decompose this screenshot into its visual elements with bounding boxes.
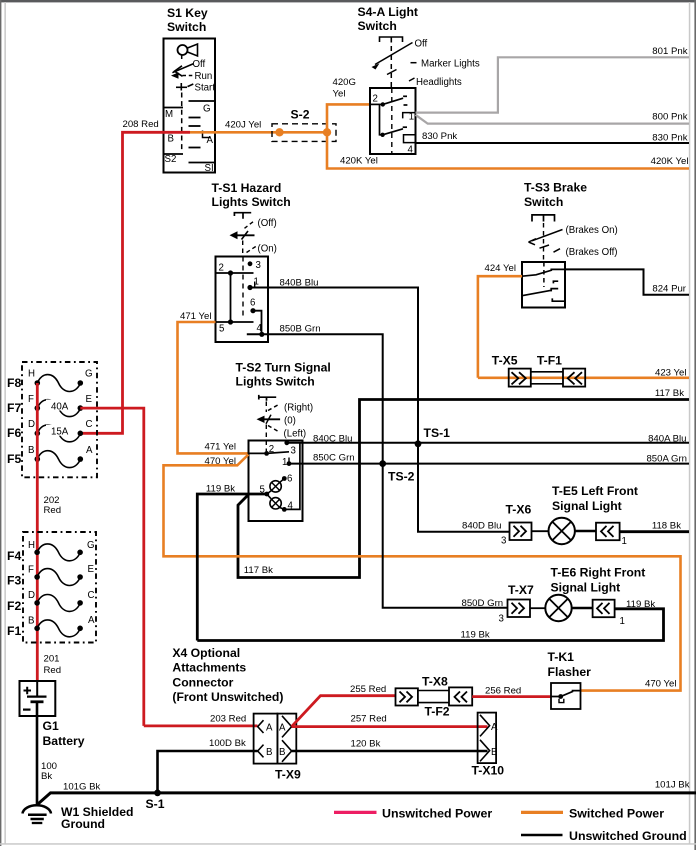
svg-text:471 Yel: 471 Yel — [180, 311, 211, 322]
ground W1 shielded ground — [23, 805, 134, 831]
svg-text:Off: Off — [193, 59, 206, 70]
svg-text:T-E6 Right Front: T-E6 Right Front — [551, 566, 646, 580]
switch S4-A light switch — [358, 5, 480, 156]
wire 423 Yel — [478, 376, 689, 379]
wire 424 Yel — [478, 276, 522, 378]
wire 801 Pnk — [416, 57, 690, 112]
wire 470 Yel — [164, 455, 681, 691]
svg-text:1: 1 — [409, 112, 414, 123]
svg-text:A: A — [207, 135, 214, 146]
svg-text:F: F — [28, 565, 34, 576]
svg-text:A: A — [88, 615, 95, 626]
connector T-E6 1 — [593, 600, 625, 627]
svg-text:Headlights: Headlights — [416, 77, 462, 88]
svg-text:3: 3 — [256, 260, 261, 271]
svg-text:T-X7: T-X7 — [508, 583, 534, 597]
svg-text:1: 1 — [622, 536, 627, 547]
fuse T-F2 — [418, 687, 472, 718]
svg-text:S4-A Light: S4-A Light — [358, 5, 418, 19]
svg-text:800 Pnk: 800 Pnk — [652, 112, 687, 123]
svg-text:420J Yel: 420J Yel — [225, 120, 261, 131]
svg-text:E: E — [86, 394, 93, 405]
svg-text:850A Grn: 850A Grn — [646, 454, 687, 465]
switch T-S2 turn signal lights switch — [236, 361, 331, 522]
svg-text:(On): (On) — [258, 244, 277, 255]
svg-text:Yel: Yel — [333, 89, 346, 100]
svg-text:255 Red: 255 Red — [350, 684, 386, 695]
svg-text:Flasher: Flasher — [548, 665, 592, 679]
wire 255 Red feed from F7 — [80, 408, 144, 726]
svg-text:471 Yel: 471 Yel — [205, 441, 236, 452]
svg-text:5: 5 — [219, 324, 224, 335]
svg-text:H: H — [28, 540, 35, 551]
svg-text:D: D — [28, 590, 35, 601]
svg-text:Start: Start — [195, 83, 216, 94]
svg-text:S-1: S-1 — [146, 797, 165, 811]
svg-text:SI: SI — [205, 163, 214, 174]
svg-text:D: D — [28, 419, 35, 430]
switch T-S3 brake switch — [522, 181, 618, 308]
svg-text:117 Bk: 117 Bk — [655, 388, 684, 399]
svg-text:F2: F2 — [7, 599, 21, 613]
connector T-X8 — [396, 675, 448, 706]
svg-text:G: G — [85, 369, 93, 380]
svg-text:Lights Switch: Lights Switch — [212, 195, 291, 209]
svg-text:T-S3 Brake: T-S3 Brake — [524, 181, 587, 195]
connector T-X10 — [472, 713, 505, 778]
svg-text:B: B — [28, 445, 34, 456]
svg-text:(Left): (Left) — [284, 429, 307, 440]
wire 800 Pnk — [416, 115, 690, 124]
svg-text:T-K1: T-K1 — [548, 650, 575, 664]
svg-text:F1: F1 — [7, 624, 21, 638]
svg-text:824 Pur: 824 Pur — [652, 284, 686, 295]
wire 120 Bk — [292, 750, 488, 753]
svg-text:T-X8: T-X8 — [422, 675, 448, 689]
svg-text:T-F2: T-F2 — [425, 705, 450, 719]
svg-text:1: 1 — [282, 457, 287, 468]
svg-text:100D Bk: 100D Bk — [209, 738, 246, 749]
svg-text:119 Bk: 119 Bk — [461, 630, 490, 641]
svg-text:840B Blu: 840B Blu — [280, 278, 319, 289]
wire 208 Red — [81, 132, 190, 433]
wire 840C Blu — [287, 442, 689, 444]
svg-text:840C Blu: 840C Blu — [313, 434, 352, 445]
fuse block F4-F1 — [7, 532, 96, 643]
legend unswitched ground — [521, 829, 687, 843]
splice S-2 — [272, 108, 336, 142]
wire 257 Red — [292, 725, 488, 728]
svg-text:201: 201 — [44, 654, 60, 665]
svg-text:203 Red: 203 Red — [210, 714, 246, 725]
svg-text:470 Yel: 470 Yel — [205, 456, 236, 467]
svg-text:470 Yel: 470 Yel — [645, 679, 676, 690]
wire 117 Bk — [238, 400, 689, 578]
wire 119 Bk upper — [197, 494, 266, 641]
svg-text:424 Yel: 424 Yel — [485, 263, 516, 274]
svg-text:850D Grn: 850D Grn — [462, 598, 504, 609]
connector T-X5 — [492, 354, 531, 387]
svg-text:T-F1: T-F1 — [537, 354, 562, 368]
svg-text:423 Yel: 423 Yel — [655, 368, 686, 379]
svg-text:830 Pnk: 830 Pnk — [422, 131, 457, 142]
switch S1 key switch — [164, 6, 216, 174]
svg-text:A: A — [491, 722, 498, 733]
svg-text:2: 2 — [373, 94, 378, 105]
wire 471 Yel — [178, 322, 249, 453]
svg-text:40A: 40A — [51, 402, 69, 413]
wire 202 Red — [36, 383, 39, 682]
svg-text:101G Bk: 101G Bk — [63, 782, 101, 793]
svg-text:T-S1 Hazard: T-S1 Hazard — [212, 181, 282, 195]
fuse T-F1 — [531, 354, 585, 387]
svg-text:801 Pnk: 801 Pnk — [652, 46, 687, 57]
svg-text:F8: F8 — [7, 376, 21, 390]
svg-text:3: 3 — [501, 536, 506, 547]
svg-text:F: F — [28, 394, 34, 405]
svg-text:(Front Unswitched): (Front Unswitched) — [172, 690, 283, 704]
svg-text:M: M — [165, 109, 173, 120]
svg-text:F4: F4 — [7, 549, 21, 563]
svg-text:C: C — [88, 590, 95, 601]
svg-text:420K Yel: 420K Yel — [340, 156, 378, 167]
svg-text:6: 6 — [287, 474, 292, 485]
wire 840D Blu — [418, 444, 510, 532]
switch T-S1 hazard lights switch — [212, 181, 291, 342]
svg-text:A: A — [279, 723, 286, 734]
svg-text:T-X6: T-X6 — [506, 503, 532, 517]
svg-text:Signal Light: Signal Light — [551, 581, 621, 595]
svg-text:Switch: Switch — [358, 19, 397, 33]
svg-text:420G: 420G — [333, 77, 356, 88]
battery G1 — [20, 681, 85, 748]
wire 118 Bk — [620, 530, 689, 533]
svg-text:X4 Optional: X4 Optional — [172, 646, 240, 660]
svg-text:B: B — [279, 747, 285, 758]
node TS-1 — [415, 426, 451, 447]
svg-text:840A Blu: 840A Blu — [648, 434, 686, 445]
svg-text:Red: Red — [44, 505, 62, 516]
svg-text:4: 4 — [408, 145, 414, 156]
svg-text:101J Bk: 101J Bk — [655, 780, 690, 791]
svg-text:E: E — [88, 564, 95, 575]
svg-text:Off: Off — [415, 39, 428, 50]
svg-text:(Brakes On): (Brakes On) — [566, 225, 618, 236]
wire 255 Red — [292, 696, 396, 727]
svg-text:Ground: Ground — [61, 817, 105, 831]
svg-text:G: G — [203, 104, 211, 115]
svg-text:850B Grn: 850B Grn — [280, 324, 321, 335]
svg-text:Unswitched Power: Unswitched Power — [382, 807, 492, 821]
svg-text:Red: Red — [44, 665, 62, 676]
wire 824 Pur — [565, 269, 689, 294]
flasher T-K1 — [548, 650, 592, 709]
svg-text:Marker Lights: Marker Lights — [421, 59, 480, 70]
connector T-X7 — [508, 583, 534, 617]
svg-text:Unswitched Ground: Unswitched Ground — [569, 829, 687, 843]
svg-text:119 Bk: 119 Bk — [626, 599, 655, 610]
svg-text:Connector: Connector — [172, 676, 233, 690]
svg-text:850C Grn: 850C Grn — [313, 453, 355, 464]
svg-text:Switch: Switch — [167, 20, 206, 34]
connector T-X9 — [254, 714, 301, 782]
svg-text:257 Red: 257 Red — [351, 714, 387, 725]
svg-text:Battery: Battery — [43, 734, 85, 748]
wire 256 Red — [472, 695, 551, 698]
svg-text:4: 4 — [288, 501, 294, 512]
svg-text:830 Pnk: 830 Pnk — [652, 133, 687, 144]
svg-text:F5: F5 — [7, 452, 21, 466]
svg-text:6: 6 — [250, 298, 255, 309]
svg-text:T-X10: T-X10 — [472, 764, 505, 778]
svg-text:G1: G1 — [43, 719, 59, 733]
svg-text:A: A — [86, 445, 93, 456]
node TS-2 — [379, 460, 414, 483]
wire 830 Pnk — [416, 142, 690, 144]
wire 420J Yel — [190, 131, 280, 134]
svg-text:Signal Light: Signal Light — [552, 499, 622, 513]
wire 850B Grn — [247, 334, 383, 463]
svg-text:Attachments: Attachments — [172, 661, 246, 675]
svg-text:117 Bk: 117 Bk — [244, 565, 273, 576]
svg-text:(Right): (Right) — [284, 403, 313, 414]
svg-text:256 Red: 256 Red — [485, 686, 521, 697]
svg-text:1: 1 — [620, 616, 625, 627]
wire 840B Blu — [250, 288, 418, 444]
svg-text:T-S2 Turn Signal: T-S2 Turn Signal — [236, 361, 331, 375]
wire 203 Red — [144, 725, 258, 728]
wire 119 Bk lower — [197, 609, 663, 641]
node S-1 — [146, 790, 165, 812]
svg-text:A: A — [266, 723, 273, 734]
lamp T-E5 left front signal light — [532, 484, 638, 544]
wire 101 G Blk ground bus — [37, 793, 696, 805]
svg-text:F6: F6 — [7, 426, 21, 440]
fuse block F8-F5 — [7, 362, 97, 477]
svg-text:T-E5 Left Front: T-E5 Left Front — [552, 484, 638, 498]
wire 850C Grn — [289, 463, 689, 465]
svg-text:(Brakes Off): (Brakes Off) — [566, 247, 618, 258]
legend unswitched power — [334, 807, 492, 821]
svg-text:B: B — [491, 747, 497, 758]
lamp T-E6 right front signal light — [530, 566, 645, 622]
svg-text:T-X5: T-X5 — [492, 354, 518, 368]
svg-text:F3: F3 — [7, 574, 21, 588]
svg-text:Bk: Bk — [41, 771, 52, 782]
svg-text:Lights Switch: Lights Switch — [236, 375, 315, 389]
svg-text:2: 2 — [219, 263, 224, 274]
svg-text:H: H — [28, 369, 35, 380]
svg-text:Switched Power: Switched Power — [569, 807, 664, 821]
svg-text:S2: S2 — [165, 154, 177, 165]
wire 420K Yel — [327, 132, 689, 168]
svg-text:840D Blu: 840D Blu — [462, 521, 501, 532]
connector T-E5 1 — [596, 523, 627, 547]
legend switched power — [521, 807, 664, 821]
svg-text:Switch: Switch — [524, 195, 563, 209]
svg-text:120 Bk: 120 Bk — [351, 739, 381, 750]
svg-text:T-X9: T-X9 — [275, 768, 301, 782]
svg-text:118 Bk: 118 Bk — [652, 521, 681, 532]
svg-text:S1 Key: S1 Key — [167, 6, 208, 20]
connector T-X6 — [506, 503, 532, 541]
svg-text:(Off): (Off) — [258, 218, 277, 229]
svg-text:B: B — [266, 747, 272, 758]
svg-text:208 Red: 208 Red — [123, 119, 159, 130]
svg-text:B: B — [28, 616, 34, 627]
wire 850D Grn — [383, 464, 508, 608]
wire 100 Blk — [36, 702, 39, 805]
svg-text:(0): (0) — [284, 416, 296, 427]
svg-text:3: 3 — [499, 614, 504, 625]
svg-text:3: 3 — [291, 446, 296, 457]
svg-text:TS-1: TS-1 — [424, 426, 451, 440]
svg-text:TS-2: TS-2 — [388, 470, 415, 484]
label X4 optional attachments connector — [172, 646, 283, 704]
wire 420G Yel — [327, 104, 371, 132]
svg-text:Run: Run — [195, 71, 213, 82]
wire 100D Bk — [158, 751, 258, 793]
svg-text:B: B — [168, 134, 174, 145]
svg-text:S-2: S-2 — [291, 108, 310, 122]
svg-text:119 Bk: 119 Bk — [206, 484, 235, 495]
svg-text:15A: 15A — [51, 427, 69, 438]
svg-text:C: C — [86, 419, 93, 430]
svg-text:420K Yel: 420K Yel — [651, 156, 689, 167]
svg-text:F7: F7 — [7, 401, 21, 415]
svg-text:G: G — [87, 540, 95, 551]
